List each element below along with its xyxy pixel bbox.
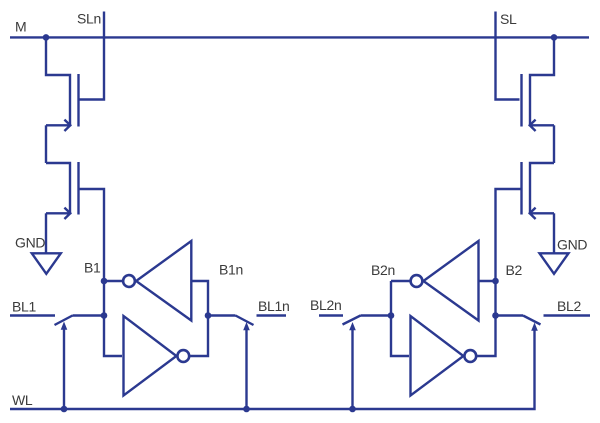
label BL2 xyxy=(557,298,582,314)
wire BL1 stub xyxy=(10,314,55,316)
wire BL2 stub xyxy=(544,314,591,316)
transistor Q2 source wire with arrow xyxy=(46,208,70,219)
node M junction dot left xyxy=(43,34,50,41)
node B2 input junction dot xyxy=(492,278,499,285)
svg-text:WL: WL xyxy=(12,392,33,408)
transistor Q1 source wire with arrow xyxy=(46,120,70,131)
op-amp U3 inverter triangle xyxy=(423,241,478,321)
wire BL1n stub xyxy=(257,314,287,316)
op-amp U2 inverter bubble xyxy=(177,350,189,362)
op-amp U2 inverter triangle xyxy=(124,316,177,396)
svg-text:B1n: B1n xyxy=(219,262,243,278)
switch blade BL2n access gate xyxy=(343,316,361,325)
svg-text:BL2: BL2 xyxy=(557,298,582,314)
wire U2 output bubble to node B1n xyxy=(190,316,208,357)
switch blade BL2 access gate xyxy=(523,316,541,325)
transistor Q2 gate bar xyxy=(77,162,79,215)
wire node B1 to inverter U1 output bubble xyxy=(104,280,123,282)
transistor Q2 gate wire to node B1 xyxy=(80,189,123,356)
transistor Q2 drain wire and channel xyxy=(46,163,70,214)
label B2 xyxy=(506,262,523,278)
label WL xyxy=(12,392,33,408)
node B2 bitline junction dot xyxy=(492,312,499,319)
svg-text:B1: B1 xyxy=(84,260,101,276)
svg-text:BL1: BL1 xyxy=(12,299,37,315)
svg-text:SL: SL xyxy=(500,11,517,27)
transistor Q3 source wire with arrow xyxy=(530,120,554,131)
node B2n bitline junction dot xyxy=(388,312,395,319)
wire node B2 to BL2 switch xyxy=(496,314,524,316)
wire BL2n switch to node B2n xyxy=(361,314,392,316)
wire BL1 switch to node B1 xyxy=(73,314,105,316)
node B1 bitline junction dot xyxy=(101,312,108,319)
transistor Q1 drain wire and channel xyxy=(46,37,70,126)
svg-text:M: M xyxy=(15,19,26,35)
op-amp U1 inverter triangle xyxy=(136,241,191,321)
transistor Q4 drain wire and channel xyxy=(530,163,554,214)
svg-text:GND: GND xyxy=(15,235,45,251)
wire M horizontal rail xyxy=(10,36,589,38)
wire Q1 source to Q2 drain xyxy=(45,125,47,163)
label BL1 xyxy=(12,299,37,315)
op-amp U3 inverter bubble xyxy=(411,275,423,287)
wire U3 input from node B2 xyxy=(479,280,496,282)
label SL xyxy=(500,11,517,27)
node M junction dot right xyxy=(551,34,558,41)
wire WL control arrow for BL1 gate xyxy=(61,322,68,410)
node B1 junction dot xyxy=(101,278,108,285)
node WL junction dot 3 xyxy=(349,406,356,413)
wire SLn vertical into gate of Q1 xyxy=(80,12,105,100)
op-amp U1 inverter bubble xyxy=(123,275,135,287)
label GND left xyxy=(15,235,45,251)
wire U3 bubble stub xyxy=(391,280,410,282)
wire Q4 source to ground xyxy=(553,213,555,253)
svg-text:GND: GND xyxy=(557,237,587,253)
label B1n xyxy=(219,262,243,278)
switch blade BL1n access gate xyxy=(236,316,254,326)
transistor Q4 gate bar xyxy=(520,162,522,215)
svg-text:B2n: B2n xyxy=(371,262,395,278)
wire SL vertical into gate of Q3 xyxy=(496,12,520,100)
ground symbol right xyxy=(540,253,569,273)
wire U1 input from node B1n xyxy=(191,281,208,316)
node WL junction dot 2 xyxy=(243,406,250,413)
label BL1n xyxy=(258,298,290,314)
node B1n bitline junction dot xyxy=(205,312,212,319)
wire WL horizontal rail with end arrow for BL2 gate xyxy=(10,323,538,410)
label BL2n xyxy=(310,297,342,313)
wire node B1n to BL1n switch xyxy=(208,314,236,316)
wire WL control arrow for BL1n gate xyxy=(243,322,250,409)
op-amp U4 inverter bubble xyxy=(464,350,476,362)
wire WL control arrow for BL2n gate xyxy=(349,322,356,409)
transistor Q3 gate bar xyxy=(520,74,522,127)
wire Q3 source to Q4 drain xyxy=(553,125,555,163)
label M xyxy=(15,19,26,35)
transistor Q4 gate wire to node B2 xyxy=(496,189,521,316)
wire BL2n stub xyxy=(319,314,343,316)
wire U4 output bubble to node B2 xyxy=(477,316,495,357)
label SLn xyxy=(77,11,101,27)
wire node B2n to inverter U3 output bubble xyxy=(391,281,409,356)
label B1 xyxy=(84,260,101,276)
switch blade BL1 access gate xyxy=(55,316,73,326)
transistor Q4 source wire with arrow xyxy=(530,208,554,219)
transistor Q1 gate bar xyxy=(77,74,79,127)
wire Q2 source to ground xyxy=(45,213,47,253)
op-amp U4 inverter triangle xyxy=(411,316,464,396)
label B2n xyxy=(371,262,395,278)
svg-text:BL1n: BL1n xyxy=(258,298,290,314)
svg-text:B2: B2 xyxy=(506,262,523,278)
transistor Q3 drain wire and channel xyxy=(530,37,554,126)
svg-text:BL2n: BL2n xyxy=(310,297,342,313)
label GND right xyxy=(557,237,587,253)
svg-text:SLn: SLn xyxy=(77,11,101,27)
node WL junction dot 1 xyxy=(61,406,68,413)
ground symbol left xyxy=(32,253,61,273)
